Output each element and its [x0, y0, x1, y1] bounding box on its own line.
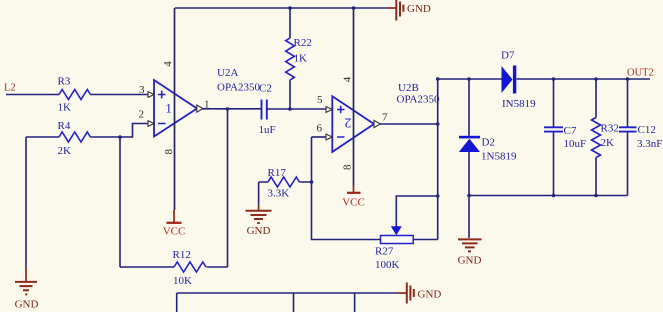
svg-text:R4: R4 [58, 120, 71, 132]
svg-text:OPA2350: OPA2350 [397, 94, 440, 106]
pin 5 arrow [326, 107, 332, 113]
svg-text:GND: GND [407, 3, 431, 15]
wire bottom stub right [354, 293, 356, 312]
op-amp U2A [154, 67, 260, 137]
svg-text:R3: R3 [58, 76, 71, 88]
wire bottom rail right [469, 195, 628, 197]
wire bottom GND rail [177, 292, 397, 294]
svg-text:U2B: U2B [398, 82, 419, 94]
wire wiper to node [396, 196, 437, 227]
wire R3 to pin3 [90, 94, 148, 96]
svg-text:U2A: U2A [217, 67, 238, 79]
svg-text:L2: L2 [4, 83, 16, 94]
capacitor C2 [259, 83, 276, 137]
wire top rail [175, 7, 388, 9]
svg-text:OUT2: OUT2 [627, 68, 654, 79]
svg-text:C2: C2 [259, 83, 272, 95]
wire pin6 [312, 136, 327, 138]
resistor R3 [58, 76, 91, 114]
wire bottom stub left [176, 293, 178, 312]
svg-text:R32: R32 [601, 123, 619, 135]
svg-text:GND: GND [15, 299, 39, 311]
svg-text:3: 3 [139, 84, 145, 96]
diode D2 [459, 136, 517, 163]
svg-text:R22: R22 [294, 37, 312, 49]
power VCC (U2A) [163, 210, 186, 238]
wire R4 left vertical [25, 137, 27, 268]
resistor R22 [286, 8, 312, 109]
svg-text:2: 2 [344, 115, 351, 130]
svg-text:GND: GND [458, 255, 482, 267]
resistor R17 [268, 167, 300, 200]
svg-text:6: 6 [317, 123, 323, 135]
resistor R4 [58, 120, 91, 157]
ground GND (under R17) [246, 206, 272, 238]
wire R12 left vertical [119, 137, 121, 267]
diode D7 [501, 50, 536, 111]
wire R12 row [120, 266, 228, 268]
svg-text:1K: 1K [58, 102, 72, 114]
ground GND (bottom left) [15, 268, 39, 311]
wire U2A pin4 [174, 8, 176, 210]
svg-text:1uF: 1uF [259, 124, 276, 136]
wire U2A output [202, 108, 262, 110]
svg-text:3.3K: 3.3K [268, 188, 290, 200]
svg-text:R17: R17 [268, 167, 287, 179]
svg-text:1N5819: 1N5819 [481, 151, 517, 163]
svg-text:2K: 2K [601, 137, 615, 149]
wire to R4 [26, 136, 59, 138]
svg-text:D2: D2 [482, 137, 495, 149]
svg-text:100K: 100K [375, 259, 400, 271]
svg-text:VCC: VCC [163, 226, 186, 238]
svg-text:8: 8 [163, 148, 175, 154]
ground GND (top right) [388, 0, 431, 21]
wire output node vertical [437, 79, 439, 240]
svg-text:C12: C12 [638, 124, 656, 136]
svg-text:OPA2350: OPA2350 [217, 82, 260, 94]
ground GND (bottom) [397, 283, 441, 304]
svg-text:4: 4 [341, 76, 353, 82]
capacitor C7 [544, 79, 586, 196]
pin 7 output arrow [374, 120, 380, 127]
pin 3 arrow [148, 92, 154, 98]
wire bottom stub middle [293, 293, 295, 312]
wire R17 row [259, 181, 312, 183]
resistor R32 [592, 79, 619, 196]
svg-text:GND: GND [247, 225, 271, 237]
svg-text:GND: GND [418, 289, 442, 301]
wire top right rail [438, 78, 650, 80]
svg-text:1K: 1K [294, 53, 308, 65]
svg-text:8: 8 [342, 164, 354, 170]
ground GND (under D2) [458, 239, 482, 266]
wire C2 to pin5 [267, 108, 326, 110]
svg-text:4: 4 [162, 61, 174, 67]
wire R27 right stub [413, 239, 438, 241]
wire U2B output [379, 123, 438, 125]
wire R17 left vertical [258, 182, 260, 206]
op-amp U2B [332, 82, 440, 152]
svg-text:10K: 10K [173, 275, 192, 287]
resistor R12 [173, 249, 206, 287]
wire junction vertical (output node down) [227, 109, 229, 267]
svg-text:10uF: 10uF [564, 138, 587, 150]
svg-text:R27: R27 [375, 246, 394, 258]
wire R4 to pin2 (step) [90, 124, 148, 138]
wire D2 vertical [468, 79, 470, 238]
wire U2B pin4 [353, 8, 355, 186]
pin 6 arrow [326, 134, 332, 140]
pin 1 output arrow [197, 105, 203, 112]
svg-text:7: 7 [382, 112, 388, 124]
wire L2 to R3 [6, 94, 59, 96]
svg-text:D7: D7 [501, 50, 515, 62]
svg-text:2: 2 [139, 109, 145, 121]
capacitor C12 [619, 79, 662, 196]
wire pin6 node vertical to R27 [312, 137, 381, 240]
svg-text:3.3nF: 3.3nF [637, 138, 662, 150]
svg-text:C7: C7 [564, 125, 577, 137]
svg-text:5: 5 [317, 94, 323, 106]
power VCC (U2B) [342, 186, 365, 209]
svg-text:VCC: VCC [342, 197, 365, 209]
potentiometer R27 [375, 226, 413, 271]
pin 2 arrow [148, 121, 154, 127]
svg-text:1: 1 [165, 101, 172, 116]
svg-text:IN5819: IN5819 [502, 98, 536, 110]
svg-text:2K: 2K [58, 145, 72, 157]
svg-text:R12: R12 [173, 249, 191, 261]
